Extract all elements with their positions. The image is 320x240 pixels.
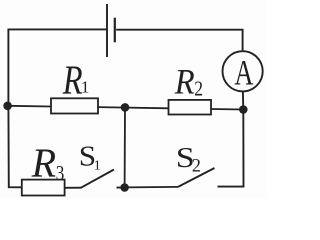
node junction left: [3, 102, 12, 111]
wire top-right (battery - to ammeter): [116, 30, 242, 51]
ammeter U1 circle: [223, 51, 263, 91]
svg-text:1: 1: [94, 158, 101, 173]
node junction bottom: [120, 183, 129, 192]
label S1: [79, 140, 96, 173]
wire top-left (battery + to left rail): [8, 29, 106, 105]
switch S2 blade: [178, 168, 215, 187]
wire bottom (junction to S2 pivot): [125, 186, 178, 189]
svg-text:R: R: [62, 58, 83, 103]
label R3: [31, 140, 56, 186]
switch S1 blade: [81, 170, 114, 188]
wire left rail lower: [8, 106, 22, 188]
label R1: [62, 58, 83, 103]
svg-text:R: R: [31, 140, 56, 186]
svg-text:A: A: [234, 52, 253, 92]
switch S1 contact stub: [117, 187, 125, 189]
wire middle rail right segment: [211, 108, 243, 111]
battery B1 short plate: [114, 18, 116, 43]
ammeter label A: [234, 52, 253, 92]
resistor R3 box: [22, 180, 65, 196]
node junction middle: [121, 103, 130, 112]
node junction right: [239, 105, 248, 114]
wire R3 to S1 pivot: [65, 187, 82, 189]
wire right rail (ammeter to bottom-right corner): [218, 92, 244, 187]
svg-text:3: 3: [56, 162, 65, 185]
svg-text:1: 1: [81, 78, 90, 97]
label S2: [176, 142, 195, 174]
svg-text:2: 2: [194, 78, 203, 101]
battery B1 long plate: [106, 4, 108, 57]
wire middle vertical (junction to bottom): [124, 107, 126, 187]
wire middle rail center segment: [98, 107, 169, 108]
svg-text:2: 2: [192, 155, 201, 177]
svg-text:R: R: [174, 63, 195, 102]
label R2: [174, 63, 195, 102]
wire middle rail left segment: [8, 105, 51, 108]
resistor R2 box: [169, 100, 212, 115]
resistor R1 box: [51, 98, 98, 113]
